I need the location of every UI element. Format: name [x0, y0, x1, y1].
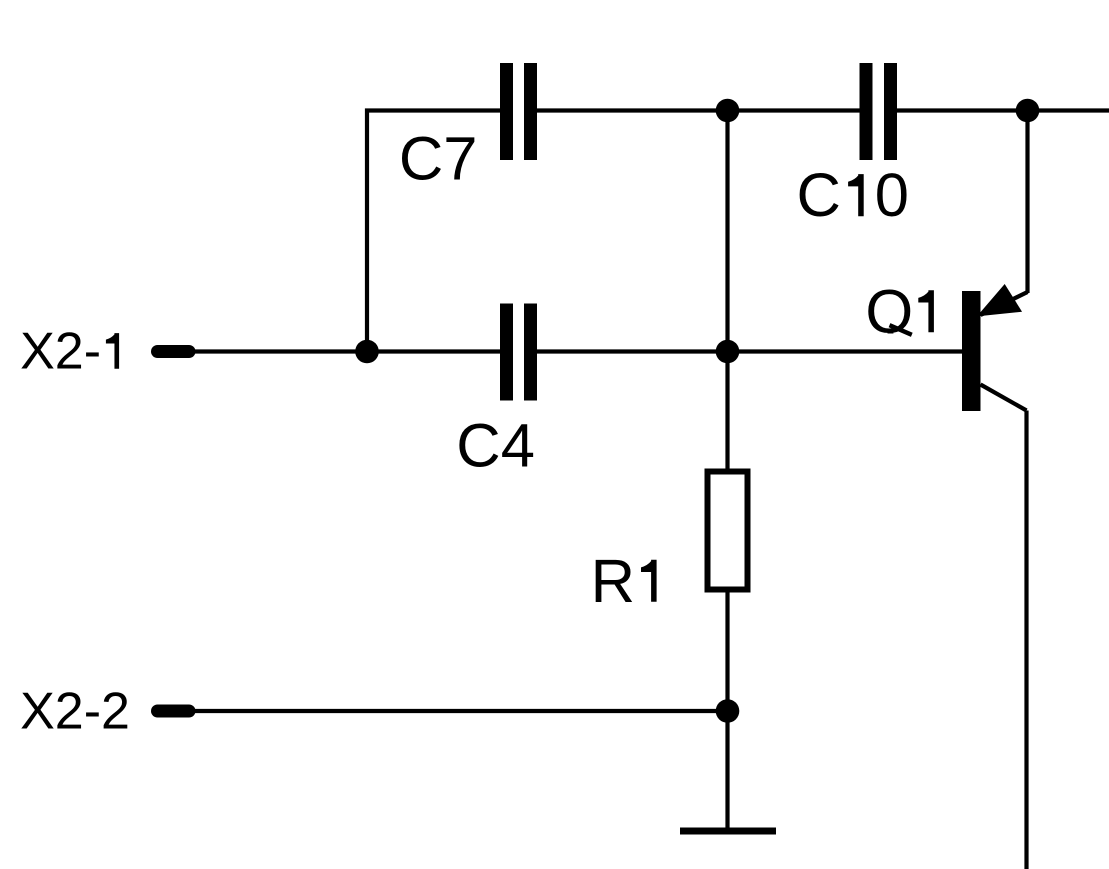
wire collector vertical down to bottom edge [1024, 411, 1028, 869]
label X2-1 [20, 323, 119, 381]
wire C4 to Q1 base [537, 349, 962, 353]
label Q1 [865, 277, 934, 346]
wire R1 bottom to ground [725, 593, 729, 832]
label C10 [797, 161, 910, 230]
node junction X2-1/left vertical [355, 340, 379, 364]
transistor Q1 emitter diagonal [981, 292, 1028, 315]
svg-text:C: C [797, 161, 841, 230]
svg-text:X2-2: X2-2 [20, 683, 130, 741]
terminal X2-1 [158, 345, 190, 358]
label R1 [591, 547, 657, 616]
transistor Q1 base bar [962, 291, 981, 411]
node junction X2-2 / R1 bottom [716, 699, 740, 723]
node junction base line / R1 [716, 340, 740, 364]
node junction top-right [1016, 99, 1040, 123]
wire mid vertical (top rail to base line) [725, 111, 729, 352]
svg-text:C4: C4 [456, 412, 535, 481]
capacitor C7 [500, 63, 537, 160]
transistor Q1 emitter arrow [981, 287, 1020, 315]
wire top rail middle segment [537, 108, 860, 112]
wire emitter vertical up to top rail [1025, 111, 1029, 294]
resistor R1 [708, 472, 748, 590]
svg-text:C7: C7 [399, 125, 478, 194]
wire top rail left segment with corner down to X2-1 node [367, 111, 500, 352]
svg-text:0: 0 [875, 161, 909, 230]
transistor Q1 collector diagonal [981, 385, 1027, 411]
wire X2-2 to junction [189, 709, 728, 713]
svg-text:R: R [591, 547, 635, 616]
ground [680, 828, 776, 835]
node junction top-mid [716, 99, 740, 123]
svg-text:X2-: X2- [20, 323, 101, 381]
wire X2-1 to C4 [189, 349, 500, 353]
wire junction to R1 top [725, 352, 729, 472]
capacitor C10 [860, 63, 898, 160]
capacitor C4 [500, 304, 537, 401]
terminal X2-2 [158, 705, 190, 718]
wire top rail right segment [897, 108, 1109, 112]
